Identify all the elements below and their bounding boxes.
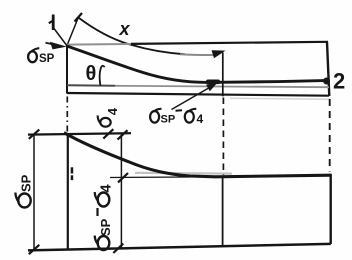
dimension line x=121.4	[120, 135, 122, 249]
gray scan streak below upper rect bottom edge	[230, 98, 330, 99]
svg-text:4: 4	[197, 112, 204, 126]
svg-text:2: 2	[333, 69, 345, 94]
lower rectangle left edge	[67, 134, 69, 250]
sigma_SP dimension line (left)	[33, 134, 35, 250]
tick at start of curve 1	[75, 13, 83, 22]
tick at its top	[118, 130, 128, 139]
upper rectangle right edge	[327, 42, 329, 96]
upper rectangle bottom edge	[67, 93, 329, 96]
svg-text:4: 4	[99, 184, 115, 192]
tick at bottom	[113, 244, 123, 253]
gray scan streak above lower flat line	[135, 172, 232, 175]
svg-text:SP: SP	[39, 53, 55, 65]
upper rectangle left edge	[66, 46, 68, 94]
arrow from sigma_SP to anchor point	[46, 43, 59, 45]
leader anchor to x-dim start	[67, 18, 79, 47]
tick bottom of sigma_SP dim	[29, 245, 40, 254]
vertical line at x=223 (upper)	[222, 53, 224, 97]
svg-text:x: x	[119, 19, 131, 39]
vertical x=222.5 lower solid	[222, 177, 224, 247]
lower rectangle right edge	[330, 174, 332, 244]
dashed vertical x=223 between diagrams	[222, 98, 224, 176]
tick on top edge at x=108	[103, 129, 113, 138]
gray mid line	[67, 84, 115, 87]
lower rectangle bottom edge	[28, 244, 331, 251]
label sigma_SP (rotated, left)	[15, 174, 33, 207]
curve 1 (x dimension curve)	[78, 18, 185, 55]
label sigma_SP (top left)	[28, 48, 39, 62]
svg-text:SP: SP	[98, 218, 113, 236]
leader from 1 to anchor point	[54, 29, 67, 46]
curve 3 (lower stress-loss curve)	[64, 133, 331, 177]
svg-text:θ: θ	[86, 63, 97, 85]
curve 2 (main stress curve, upper)	[67, 46, 329, 82]
leader of sigma_SP - sigma_4 (upper)	[172, 86, 214, 110]
arrowhead of curve 1	[212, 50, 226, 58]
svg-text:SP: SP	[19, 174, 34, 192]
label sigma_SP - sigma_4 (upper, horizontal)	[150, 109, 161, 123]
dash-dot vertical x=67.5 between diagrams	[66, 97, 68, 133]
label sigma_4 (rotated)	[98, 107, 121, 126]
svg-text:4: 4	[105, 107, 120, 115]
node 1 label	[49, 15, 53, 31]
upper rectangle top edge	[67, 43, 133, 46]
tick at flat level	[118, 173, 128, 182]
tick top of sigma_SP dim	[29, 130, 40, 139]
dashed vertical x=330 between diagrams	[329, 99, 331, 172]
lower diagram top edge	[28, 133, 131, 134]
reference line at flat level	[110, 176, 190, 179]
end dot (point 2)	[323, 78, 330, 85]
label sigma_SP - sigma_4 (rotated)	[95, 184, 115, 250]
small dash near left edge	[71, 167, 74, 173]
svg-text:SP: SP	[161, 114, 176, 126]
